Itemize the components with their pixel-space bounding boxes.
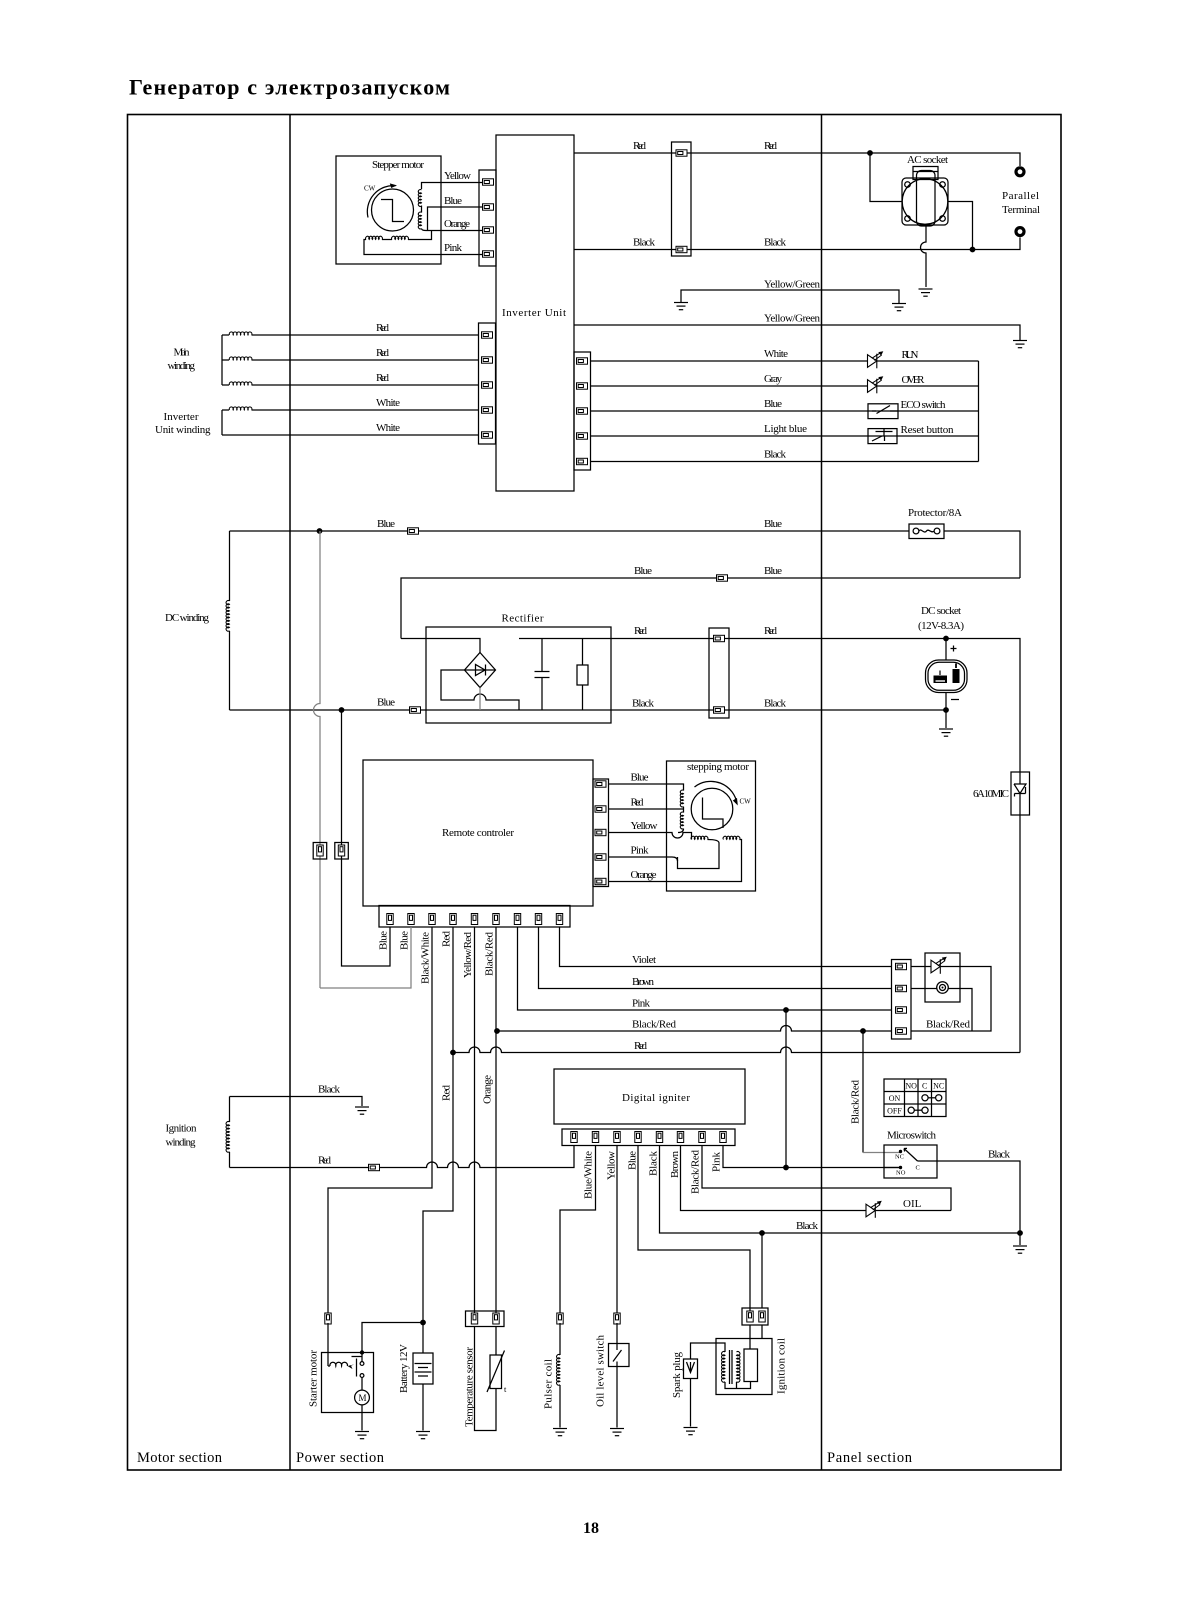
svg-text:Red: Red	[634, 1040, 648, 1052]
svg-text:Starter motor: Starter motor	[308, 1350, 320, 1407]
svg-text:AC socket: AC socket	[907, 154, 948, 166]
svg-text:Protector/8A: Protector/8A	[908, 507, 962, 519]
svg-text:Blue: Blue	[378, 931, 390, 950]
svg-text:Unit winding: Unit winding	[155, 424, 211, 436]
svg-text:Blue: Blue	[377, 518, 395, 530]
svg-text:OFF: OFF	[887, 1107, 902, 1116]
svg-text:White: White	[764, 348, 788, 360]
svg-text:White: White	[376, 422, 400, 434]
svg-text:6A 10MIC: 6A 10MIC	[973, 788, 1009, 800]
svg-text:Red: Red	[376, 347, 390, 359]
svg-text:NC: NC	[933, 1082, 944, 1091]
svg-text:Blue: Blue	[634, 565, 652, 577]
svg-text:Yellow/Red: Yellow/Red	[462, 932, 474, 979]
svg-text:Black/Red: Black/Red	[850, 1080, 862, 1125]
svg-text:Violet: Violet	[632, 954, 656, 966]
svg-text:Stepper motor: Stepper motor	[372, 159, 424, 171]
svg-text:Black/White: Black/White	[420, 932, 432, 984]
svg-text:Panel section: Panel section	[827, 1450, 913, 1466]
svg-text:Brown: Brown	[669, 1151, 681, 1179]
svg-text:Black: Black	[764, 237, 787, 249]
svg-text:18: 18	[583, 1520, 599, 1537]
svg-text:Pulser coil: Pulser coil	[543, 1359, 555, 1409]
svg-text:Reset button: Reset button	[901, 424, 955, 436]
svg-text:Main: Main	[174, 347, 191, 359]
svg-text:Black/Red: Black/Red	[926, 1019, 971, 1031]
svg-text:Blue: Blue	[377, 697, 395, 709]
svg-text:Microswitch: Microswitch	[887, 1130, 937, 1142]
svg-text:Red: Red	[633, 140, 647, 152]
svg-text:DC socket: DC socket	[921, 605, 961, 617]
svg-text:Pink: Pink	[444, 242, 463, 254]
svg-text:Black: Black	[764, 698, 787, 710]
svg-text:Red: Red	[318, 1155, 332, 1167]
svg-text:ECO switch: ECO switch	[901, 399, 947, 411]
svg-text:CW: CW	[740, 798, 752, 806]
svg-text:NC: NC	[895, 1154, 904, 1161]
svg-text:Генератор с электрозапуском: Генератор с электрозапуском	[129, 75, 450, 100]
svg-text:Black: Black	[764, 449, 787, 461]
svg-text:Red: Red	[764, 625, 778, 637]
svg-text:Red: Red	[376, 372, 390, 384]
svg-text:Black: Black	[633, 237, 656, 249]
svg-text:Power section: Power section	[296, 1450, 385, 1466]
svg-text:Blue/White: Blue/White	[583, 1151, 595, 1199]
svg-text:Remote controler: Remote controler	[442, 827, 514, 839]
svg-text:winding: winding	[168, 360, 196, 372]
svg-text:Pink: Pink	[632, 998, 651, 1010]
svg-text:Battery 12V: Battery 12V	[398, 1344, 410, 1393]
svg-text:C: C	[916, 1165, 920, 1172]
svg-text:Rectifier: Rectifier	[502, 613, 544, 625]
svg-text:Digital igniter: Digital igniter	[622, 1092, 690, 1104]
svg-text:OIL: OIL	[903, 1198, 922, 1210]
svg-text:Orange: Orange	[482, 1075, 494, 1104]
svg-text:C: C	[922, 1082, 927, 1091]
svg-text:Blue: Blue	[444, 195, 462, 207]
svg-text:Inverter: Inverter	[164, 411, 199, 423]
svg-text:Brown: Brown	[632, 976, 655, 988]
svg-text:M: M	[359, 1393, 367, 1403]
svg-text:Inverter Unit: Inverter Unit	[502, 307, 566, 319]
svg-text:stepping motor: stepping motor	[687, 761, 749, 773]
svg-text:Pink: Pink	[631, 845, 650, 857]
svg-text:NO: NO	[896, 1170, 906, 1177]
svg-text:OVER: OVER	[902, 374, 926, 386]
svg-text:Black: Black	[648, 1151, 660, 1177]
svg-text:Red: Red	[634, 625, 648, 637]
svg-text:Yellow/Green: Yellow/Green	[764, 279, 821, 291]
svg-text:Red: Red	[764, 140, 778, 152]
svg-text:Pink: Pink	[711, 1152, 723, 1173]
svg-text:Light blue: Light blue	[764, 423, 807, 435]
svg-text:Blue: Blue	[764, 518, 782, 530]
svg-text:Ignition coil: Ignition coil	[776, 1338, 788, 1394]
svg-text:Black: Black	[988, 1149, 1011, 1161]
svg-text:Orange: Orange	[631, 869, 657, 881]
svg-text:Red: Red	[441, 931, 453, 948]
svg-text:Blue: Blue	[399, 931, 411, 950]
svg-text:Red: Red	[441, 1085, 453, 1102]
svg-text:(12V-8.3A): (12V-8.3A)	[918, 620, 964, 632]
svg-text:Yellow: Yellow	[631, 820, 658, 832]
svg-text:Ignition: Ignition	[166, 1123, 198, 1135]
svg-text:White: White	[376, 397, 400, 409]
svg-text:Black/Red: Black/Red	[632, 1019, 677, 1031]
svg-text:Spark plug: Spark plug	[671, 1352, 683, 1399]
svg-text:Temperature sensor: Temperature sensor	[464, 1347, 476, 1427]
svg-text:Blue: Blue	[631, 772, 649, 784]
svg-text:Yellow/Green: Yellow/Green	[764, 313, 821, 325]
svg-text:Yellow: Yellow	[606, 1151, 618, 1180]
svg-text:NO: NO	[905, 1082, 917, 1091]
svg-text:RUN: RUN	[902, 349, 919, 361]
svg-text:ON: ON	[889, 1094, 901, 1103]
svg-text:t: t	[504, 1384, 507, 1394]
svg-text:Red: Red	[376, 322, 390, 334]
svg-text:Blue: Blue	[764, 398, 782, 410]
svg-text:CW: CW	[364, 185, 376, 193]
svg-text:Gray: Gray	[764, 373, 783, 385]
svg-text:winding: winding	[166, 1137, 197, 1149]
svg-text:Oil level switch: Oil level switch	[595, 1335, 607, 1408]
svg-text:Yellow: Yellow	[444, 170, 471, 182]
svg-text:DC winding: DC winding	[165, 612, 210, 624]
svg-text:Black: Black	[632, 698, 655, 710]
svg-text:Black/Red: Black/Red	[484, 932, 496, 977]
svg-text:Motor section: Motor section	[137, 1450, 223, 1466]
svg-text:Black: Black	[318, 1084, 341, 1096]
svg-text:Orange: Orange	[444, 218, 470, 230]
svg-text:Terminal: Terminal	[1002, 204, 1040, 216]
svg-text:Parallel: Parallel	[1002, 190, 1039, 202]
svg-text:Black/Red: Black/Red	[690, 1150, 702, 1195]
svg-text:Blue: Blue	[764, 565, 782, 577]
svg-text:Blue: Blue	[627, 1151, 639, 1170]
svg-text:Black: Black	[796, 1220, 819, 1232]
svg-text:Red: Red	[631, 797, 645, 809]
